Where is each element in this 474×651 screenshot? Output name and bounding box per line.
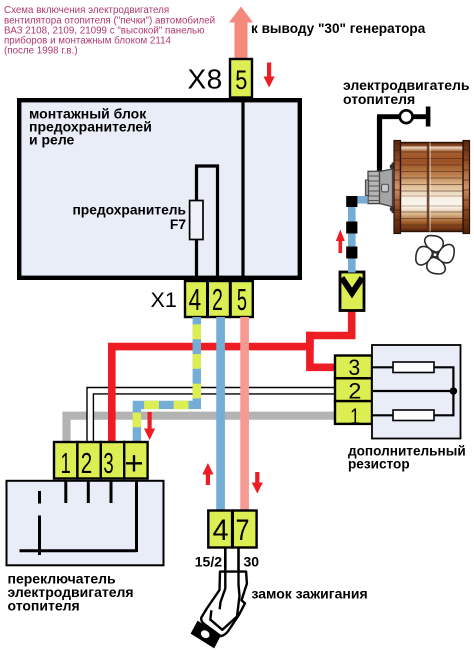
svg-text:замок зажигания: замок зажигания xyxy=(252,586,368,602)
switch contact 3 xyxy=(110,481,113,503)
switch off-contact dash xyxy=(38,491,41,504)
svg-text:F7: F7 xyxy=(170,217,186,232)
svg-text:2: 2 xyxy=(212,282,223,317)
gray wire: resistor pin 1 to switch pin 1 xyxy=(67,416,336,443)
svg-text:отопителя: отопителя xyxy=(343,91,415,107)
svg-text:к выводу "30" генератора: к выводу "30" генератора xyxy=(251,21,426,36)
resistor connector pin 2 xyxy=(335,378,372,403)
svg-text:и реле: и реле xyxy=(29,132,75,148)
mounting block (fuse/relay box) xyxy=(19,100,300,278)
wire R1 right to common xyxy=(434,367,453,415)
svg-text:4: 4 xyxy=(189,282,202,317)
svg-text:отопителя: отопителя xyxy=(8,597,80,613)
svg-text:4: 4 xyxy=(213,514,229,547)
single-pin connector (chevron) xyxy=(340,272,364,311)
resistor element R1 xyxy=(393,362,434,373)
svg-text:2: 2 xyxy=(81,448,92,480)
svg-text:3: 3 xyxy=(348,355,360,380)
resistor connector pin 1 xyxy=(335,401,372,429)
pink wire: X1.5 to ignition 7 xyxy=(240,317,249,511)
svg-text:15/2: 15/2 xyxy=(195,553,222,569)
svg-text:X1: X1 xyxy=(151,288,177,312)
switch label xyxy=(8,571,134,614)
heater switch box xyxy=(7,481,164,566)
switch contact 1 xyxy=(64,481,67,503)
connector X1 pin 4 xyxy=(185,281,207,317)
motor housing (gray gearbox) xyxy=(379,169,392,207)
red arrow down near ignition 7 xyxy=(252,472,263,494)
svg-text:(после 1998 г.в.): (после 1998 г.в.) xyxy=(4,46,78,57)
resistor label xyxy=(348,443,466,471)
red wire: chevron connector to switch pin 3 and resistor pin 3 xyxy=(310,310,352,367)
junction node xyxy=(450,387,458,395)
switch contact 2 xyxy=(87,481,90,503)
ignition lead 15/2 xyxy=(224,548,227,571)
title text xyxy=(4,5,215,57)
red arrow down near switch xyxy=(144,412,155,440)
fuse label xyxy=(72,202,186,232)
resistor connector pin 3 xyxy=(335,355,372,380)
wire: X8.5 to X1.5 inside block xyxy=(241,98,244,280)
svg-text:+: + xyxy=(124,444,143,481)
switch + lead xyxy=(135,481,138,552)
heater motor label xyxy=(343,77,470,107)
wire pin1 to resistor R2 xyxy=(372,414,393,416)
arrow down at X8 xyxy=(264,63,275,88)
block label xyxy=(29,105,152,147)
red arrow up near ignition 4 xyxy=(202,463,213,485)
svg-text:3: 3 xyxy=(103,448,113,480)
ignition pin 4 xyxy=(208,511,232,548)
fuse F7 xyxy=(190,201,203,240)
wire pin2 to common junction xyxy=(372,390,453,392)
connector X1 pin 2 xyxy=(208,281,230,317)
svg-text:5: 5 xyxy=(235,65,247,95)
svg-text:2: 2 xyxy=(348,379,361,404)
resistor element R2 xyxy=(393,410,434,421)
white wire: resistor pin 2 to switch pin 2 xyxy=(90,391,335,443)
ignition pin 7 xyxy=(233,511,257,548)
fan symbol xyxy=(414,234,456,276)
svg-text:резистор: резистор xyxy=(348,457,410,472)
wire to generator terminal 30 (pink arrow up) xyxy=(229,7,253,61)
ignition key bow tab xyxy=(191,621,222,649)
svg-text:X8: X8 xyxy=(188,64,223,95)
switch rotor arm xyxy=(38,516,41,556)
svg-text:предохранитель: предохранитель xyxy=(72,202,186,217)
red arrow up near motor xyxy=(336,230,345,254)
switch pin 1 xyxy=(54,442,77,480)
switch pin 2 xyxy=(77,442,100,480)
motor mounting plate xyxy=(392,163,396,213)
svg-text:1: 1 xyxy=(60,448,70,480)
blue wire: X1.2 to ignition 4 xyxy=(216,317,225,511)
svg-text:7: 7 xyxy=(236,514,250,547)
wire pin3 to resistor R1 xyxy=(372,366,393,368)
switch pin + xyxy=(124,442,147,481)
motor ground bracket xyxy=(377,107,430,174)
wire: fuse loop X1.4 to X1.2 xyxy=(197,166,218,280)
additional resistor box xyxy=(372,345,461,439)
connector X1 pin 5 xyxy=(231,281,253,317)
svg-text:1: 1 xyxy=(350,404,360,429)
svg-text:5: 5 xyxy=(237,282,247,317)
connector X8 pin 5 xyxy=(230,59,252,98)
svg-text:30: 30 xyxy=(244,553,260,569)
switch pin 3 xyxy=(101,442,124,480)
motor cylinder xyxy=(390,164,395,169)
ignition lead 30 xyxy=(237,548,240,571)
switch common bar xyxy=(20,549,137,552)
blue-yellow striped wire: X1.4 to switch + xyxy=(137,317,197,443)
ignition key symbol xyxy=(201,569,247,636)
motor pigtail wire (blue/black) xyxy=(352,200,367,273)
